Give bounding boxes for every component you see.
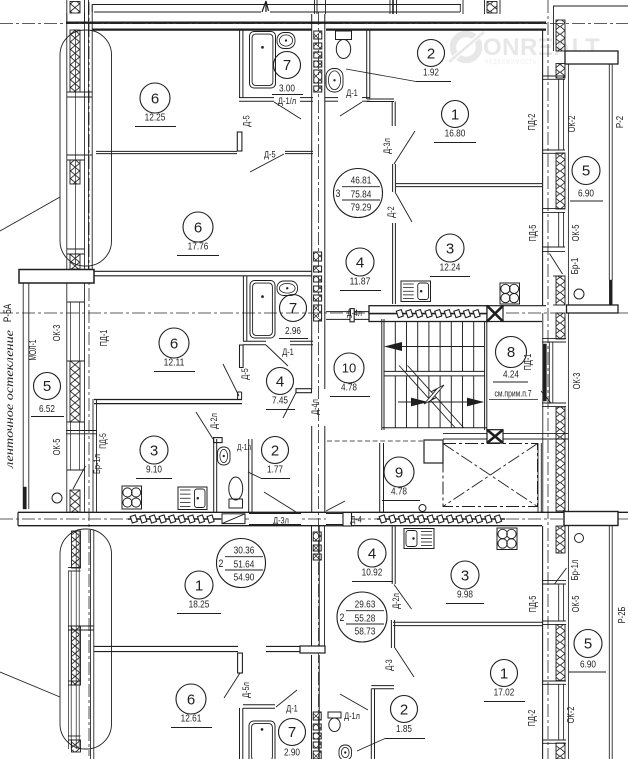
room divider y622 [393, 621, 542, 623]
sink bathroom5 sink [339, 745, 352, 759]
door D-4l lower leaf [296, 389, 312, 393]
left inner face bottom [90, 530, 92, 759]
apartment stamp 2-room a [217, 539, 266, 588]
svg-text:10.92: 10.92 [362, 567, 383, 579]
left wall block cap 2 [67, 154, 92, 156]
room divider wall y271 [94, 270, 312, 272]
svg-text:4.78: 4.78 [341, 382, 357, 394]
top parapet inner line [94, 11, 261, 13]
door D-1 bottom swing [276, 690, 297, 707]
right vent circle bottom [575, 534, 584, 543]
left wall ok5 sills [67, 421, 85, 423]
bathroom3 bottom wall [325, 97, 338, 99]
right wall ok5b sill top [542, 580, 566, 582]
central wall lines corridor2 [311, 426, 313, 512]
svg-text:29.63: 29.63 [355, 599, 376, 611]
svg-text:ОК-5: ОК-5 [571, 224, 582, 241]
svg-text:6: 6 [187, 691, 195, 708]
left wall hatch block 3 [70, 254, 80, 269]
sink bathroom2 sink [277, 281, 298, 296]
bathtub bathroom4 tub [249, 721, 275, 759]
left wall ok3 sills [67, 301, 85, 303]
left wall inner face lines [87, 5, 89, 270]
loggia edge cap top [609, 280, 612, 305]
door D-5l swing [224, 673, 240, 698]
svg-text:Д-1: Д-1 [282, 347, 294, 358]
central wall lines top [311, 14, 313, 102]
svg-text:8: 8 [507, 344, 515, 361]
svg-text:Бр-1л: Бр-1л [92, 454, 103, 474]
svg-text:4.24: 4.24 [503, 369, 519, 381]
left wall ok5 glazing [70, 422, 72, 470]
bathroom3 vent boxes [314, 31, 322, 92]
right wall ok2 sill bottom [542, 149, 565, 151]
central wall lines corridor [311, 322, 313, 389]
right wall inner line stair [542, 313, 544, 512]
svg-text:6: 6 [194, 219, 202, 236]
right wall inner lines bottom [542, 526, 544, 759]
kitchen sink kitchen 9.98 sink [404, 529, 434, 549]
svg-text:Д-4л: Д-4л [310, 399, 321, 415]
room circle 3 (9.98) [446, 561, 484, 604]
svg-text:Д-3л: Д-3л [382, 138, 393, 154]
loggia edge lines bottom [608, 526, 610, 759]
svg-text:10: 10 [342, 361, 356, 376]
bathroom1 bottom wall [239, 97, 274, 99]
svg-text:1: 1 [500, 665, 508, 682]
mid wall band pattern left [128, 518, 221, 520]
door D-5 swing [250, 154, 284, 172]
bathroom2 bottom wall [243, 340, 266, 342]
central wall vent boxes upper-bottom [313, 532, 321, 560]
svg-text:Д-5л: Д-5л [241, 682, 252, 698]
axis line 1 vertical [88, 2, 90, 756]
svg-text:9.98: 9.98 [457, 589, 473, 601]
room circle 9 (4.78) [382, 457, 420, 501]
top wall inner heavy line [92, 29, 312, 31]
svg-text:ПД-1: ПД-1 [523, 353, 534, 370]
left wall block cap b2 [68, 625, 94, 627]
svg-text:ПД-5: ПД-5 [98, 433, 109, 449]
svg-text:Д-5: Д-5 [240, 368, 251, 380]
svg-text:4: 4 [276, 373, 284, 390]
toilet room right partition [248, 439, 250, 512]
svg-text:НЕДВИЖИМОСТЬ: НЕДВИЖИМОСТЬ [485, 57, 537, 66]
bathroom4 left wall [239, 708, 241, 759]
axis line 2 vertical [318, 12, 320, 759]
room circle 2 (1.77) [261, 437, 290, 479]
mid wall band opening D-4 [326, 513, 344, 525]
top parapet right corner [459, 5, 461, 13]
section flag elevator flag [487, 430, 503, 443]
stove kitchen 9.98 stove [497, 528, 517, 550]
stair window glazing [548, 342, 550, 403]
door D-2 swing [395, 192, 412, 222]
svg-text:3: 3 [150, 442, 158, 459]
right wall ok2b sill bottom [542, 739, 566, 741]
svg-text:Д-1: Д-1 [286, 704, 298, 715]
door D-1l bottom swing [340, 694, 368, 710]
right wall hatch s2 [556, 407, 565, 511]
sink bathroom3 sink [326, 69, 343, 93]
svg-text:ПД-2: ПД-2 [527, 113, 538, 130]
svg-text:1.77: 1.77 [267, 464, 283, 476]
svg-text:46.81: 46.81 [351, 175, 372, 187]
svg-text:2: 2 [271, 442, 279, 459]
svg-text:Д-4: Д-4 [350, 515, 362, 526]
top parapet outer line [92, 4, 461, 6]
bathroom4 top wall [243, 704, 275, 706]
svg-text:Д-2л: Д-2л [209, 413, 220, 429]
right wall ok2b sill top [542, 680, 566, 682]
door D-4l lower swing [283, 393, 296, 419]
svg-text:Д-1л: Д-1л [344, 711, 360, 722]
svg-text:1: 1 [451, 106, 459, 123]
partition x393 lower [392, 223, 394, 304]
svg-text:4: 4 [368, 545, 376, 562]
svg-text:6.90: 6.90 [578, 188, 594, 200]
svg-text:Р-2Б: Р-2Б [617, 606, 628, 623]
partition y151 [96, 150, 237, 152]
partition x393 bottom [391, 526, 393, 584]
left wall hatch block 1 [70, 30, 80, 92]
left wall glazing line a [66, 13, 68, 269]
left wall hatch b3 [72, 740, 81, 752]
svg-text:Д-2: Д-2 [386, 206, 397, 218]
svg-text:Р-2: Р-2 [615, 116, 626, 129]
band right solid [503, 305, 546, 307]
leader 1.77 [248, 472, 262, 479]
svg-text:ПД-2: ПД-2 [527, 709, 538, 726]
stove kitchen 9.10 stove [122, 486, 142, 509]
leader bottom-left bay [0, 672, 60, 697]
stair break line [399, 366, 455, 428]
elevator corner block [424, 440, 443, 463]
left wall mid glazing [70, 302, 72, 361]
svg-text:ОК-3: ОК-3 [572, 372, 583, 389]
door D-5 leaf [237, 132, 242, 151]
bathroom3 right wall [366, 29, 368, 99]
room circle 10 (4.78) [330, 353, 370, 397]
central wall vent boxes bottom [313, 712, 321, 759]
svg-text:58.73: 58.73 [355, 626, 376, 638]
elevator top wall [443, 433, 487, 435]
svg-text:3: 3 [461, 567, 469, 584]
right vent circle top [574, 289, 584, 299]
right wall ok2b glazing [558, 684, 560, 740]
right wall ok5 sill bottom [542, 246, 565, 248]
svg-text:Д-1/л: Д-1/л [278, 96, 296, 107]
room circle 3 (12.24) [430, 234, 470, 277]
door D-1 top swing [340, 102, 362, 116]
svg-text:ОК-5: ОК-5 [52, 438, 63, 455]
central wall vent boxes mid [314, 252, 322, 321]
svg-text:1.85: 1.85 [396, 723, 412, 735]
left inner face mid [92, 399, 94, 512]
door D-4 leaf [343, 513, 352, 527]
door D-5 mid leaf [240, 345, 244, 368]
right wall hatch b2 [556, 625, 565, 681]
door D-2l leaf [214, 438, 223, 443]
room circle 7 (2.90) [279, 719, 306, 746]
section flag top band flag [487, 306, 503, 322]
loggia top divider wall [565, 51, 618, 64]
left ribbon glazing lines [22, 283, 24, 509]
svg-text:12.11: 12.11 [164, 357, 185, 369]
room circle 5 bottom [574, 630, 602, 658]
left wall block cap 3 [67, 248, 85, 250]
kitchen sink kitchen 9.10 sink [178, 487, 207, 510]
door D-5 mid swing [223, 364, 239, 396]
top wall outer heavy line [66, 22, 546, 24]
room circle 4 (10.92) [352, 539, 393, 582]
stair upper flight treads [394, 322, 396, 371]
svg-text:Д-2л: Д-2л [391, 593, 402, 609]
stair break zigzag [424, 385, 444, 404]
svg-text:ОК-5: ОК-5 [571, 595, 582, 612]
watermark logo ring [453, 34, 479, 60]
svg-text:6.90: 6.90 [580, 659, 596, 671]
svg-text:см.прим.п.7: см.прим.п.7 [494, 389, 531, 399]
door D-1 mid swing [266, 345, 288, 366]
room circle 2 (1.85) [385, 696, 425, 739]
room circle 2 (1.92) [416, 40, 451, 82]
room circle 6 (17.76) [177, 212, 219, 256]
door D-3 leaf [390, 620, 392, 648]
svg-text:75.84: 75.84 [351, 189, 372, 201]
stair top band pattern [369, 313, 503, 315]
axis line A horizontal [0, 23, 628, 25]
left wall block cap b1 [68, 567, 81, 569]
room circle 7 (2.96) [280, 295, 307, 322]
svg-text:2: 2 [427, 45, 435, 62]
left wall glazing line b [75, 30, 77, 266]
leader 1.85 [357, 739, 385, 752]
right wall hatch t3 [556, 276, 565, 305]
svg-text:6.52: 6.52 [39, 403, 55, 415]
right wall hatch b1 [556, 526, 565, 553]
svg-text:5: 5 [582, 163, 590, 180]
door D-2l bottom swing [394, 585, 412, 610]
svg-text:7: 7 [288, 724, 296, 741]
hall top wall [367, 98, 394, 100]
partition y399 thick [94, 399, 242, 401]
stair up arrow [391, 346, 484, 348]
left bay capsule bottom [60, 529, 112, 749]
top right corner vertical [553, 6, 555, 51]
bathroom2 left wall [242, 276, 244, 341]
elevator shaft [443, 444, 538, 507]
svg-text:ОК-2: ОК-2 [566, 706, 577, 723]
stair top band [369, 306, 487, 322]
svg-text:6: 6 [151, 90, 159, 107]
svg-text:18.25: 18.25 [189, 599, 210, 611]
left wall hatch block 2 [70, 160, 80, 184]
svg-text:ПД-5: ПД-5 [528, 224, 539, 241]
room circle 5 left [34, 373, 61, 400]
svg-text:2: 2 [340, 612, 345, 624]
right wall hatch b3 [556, 743, 565, 759]
left wall glazing bottom a [68, 571, 70, 749]
right wall ok5 sill top [542, 208, 565, 210]
door Br-1l left swing [73, 466, 86, 489]
svg-text:12.25: 12.25 [145, 112, 166, 124]
door D-1/l swing [274, 102, 301, 119]
left wall mid lines [66, 283, 68, 512]
axis line 3 vertical [547, 0, 549, 759]
bathroom1 left wall [239, 29, 241, 98]
room circle 4 (7.45) [266, 368, 295, 410]
stair lower flight treads [394, 376, 396, 428]
svg-text:ПД-1: ПД-1 [99, 329, 110, 346]
door Br-1 swing [550, 254, 563, 275]
top wall stub x390 [389, 0, 391, 14]
svg-text:30.36: 30.36 [234, 545, 255, 557]
svg-text:7.45: 7.45 [272, 395, 288, 407]
left wall glazing line c [84, 13, 86, 269]
door Br-1l right swing [555, 568, 567, 584]
door D-5l leaf [238, 653, 243, 673]
central wall lines mid [311, 102, 313, 322]
top-right wall hatch stub [487, 2, 497, 14]
svg-text:5: 5 [584, 636, 592, 653]
stove kitchen 12.24 stove [500, 283, 520, 304]
left wall glazing bottom b [75, 531, 77, 749]
svg-text:ОК-3: ОК-3 [52, 324, 63, 341]
room circle 3 (9.10) [136, 436, 172, 479]
leader 1.92 [346, 69, 416, 82]
apartment stamp 2-room b [337, 592, 387, 642]
bathtub bathroom2 tub [250, 281, 275, 339]
door D-2l swing [196, 412, 213, 439]
left wall hatch b2 [72, 626, 81, 685]
right wall inner lines top [542, 30, 544, 306]
door D-3l swing upper [264, 492, 296, 512]
stair window sill bottom [542, 402, 566, 404]
right wall inner face line [567, 64, 569, 305]
svg-text:7: 7 [283, 57, 291, 74]
svg-text:Д-5: Д-5 [242, 115, 253, 127]
svg-text:МОЛ-1: МОЛ-1 [28, 339, 39, 360]
svg-text:ПД-5: ПД-5 [528, 595, 539, 612]
mid wall band outline [18, 511, 628, 513]
svg-text:4: 4 [356, 254, 364, 271]
north flag mark [262, 1, 269, 12]
sink bathroom1 sink [277, 33, 295, 49]
svg-text:6: 6 [170, 335, 178, 352]
door D-3l leaf in band [222, 514, 245, 524]
svg-text:Д-4л: Д-4л [347, 308, 362, 318]
svg-text:7: 7 [289, 300, 297, 317]
room circle 1 (16.80) [434, 101, 476, 143]
room circle 5 top [572, 157, 600, 185]
svg-text:17.76: 17.76 [188, 241, 209, 253]
svg-text:2: 2 [400, 701, 408, 718]
svg-text:9.10: 9.10 [146, 464, 162, 476]
svg-text:Д-3л: Д-3л [273, 516, 289, 527]
mid wall band pattern right [377, 518, 505, 520]
left ribbon glazing end cap [23, 487, 26, 509]
svg-text:Бр-1: Бр-1 [570, 257, 581, 274]
right wall ok5 glazing [558, 212, 560, 247]
central wall block bottom [300, 646, 325, 653]
door Br-1l sill lines [66, 430, 97, 432]
right wall hatch t1 [556, 20, 565, 51]
elevator right wall lines [537, 443, 539, 512]
leader top-left bay [0, 197, 60, 231]
room circle 4 (11.87) [340, 248, 381, 291]
toilet partition bottom [371, 685, 394, 687]
axis line C horizontal [0, 518, 628, 520]
stair mid rails [384, 370, 485, 372]
left ribbon vent circle [52, 493, 62, 503]
toilet room left partition [213, 439, 215, 512]
svg-text:79.29: 79.29 [351, 202, 372, 214]
room circle 6 (12.61) [171, 684, 212, 728]
top wall stub x315 [314, 0, 316, 14]
svg-text:55.28: 55.28 [355, 613, 376, 625]
room divider y183 [396, 183, 542, 185]
central wall lines bottom [311, 655, 313, 759]
bathtub bathroom1 tub [250, 32, 276, 89]
room circle 1 (17.02) [484, 660, 525, 702]
svg-text:Д-5: Д-5 [264, 150, 276, 161]
door D-3l top swing [394, 131, 415, 164]
room circle 1 (18.25) [177, 571, 221, 614]
loggia edge lines top [608, 64, 610, 280]
room circle 7 (3.00) [274, 52, 301, 79]
partition x392 upper [391, 102, 393, 127]
axis line B horizontal [0, 312, 628, 314]
apartment stamp 3-room [334, 169, 383, 218]
stair down arrows [398, 401, 483, 403]
left wall hatch block 5 [70, 490, 80, 512]
top parapet left corner [91, 5, 93, 13]
left wall hatch b1 [72, 531, 81, 568]
partition x393 mid [392, 164, 394, 192]
svg-text:Д-3: Д-3 [384, 659, 395, 671]
stair window sill top [542, 338, 566, 340]
svg-text:51.64: 51.64 [234, 559, 255, 571]
right wall ok2 glazing [558, 79, 560, 150]
svg-text:5: 5 [43, 378, 51, 395]
stair bottom line [382, 427, 487, 429]
right wall ok5b glazing [558, 584, 560, 621]
svg-text:Д-1л: Д-1л [237, 442, 251, 452]
toilet toilet room wc [229, 477, 243, 508]
svg-text:3: 3 [336, 188, 341, 200]
door D-4 swing [326, 501, 345, 511]
stair left wall [381, 319, 383, 430]
mid wall band right part [564, 512, 618, 526]
svg-text:Р-5А: Р-5А [2, 303, 14, 322]
corridor9 dashed boundary [327, 440, 423, 442]
elevator door circle [419, 505, 426, 512]
door PD-1 leaf dark [543, 344, 546, 401]
door D-4l top leaf [350, 309, 354, 322]
elevator top wall right lines [503, 433, 568, 435]
svg-text:2.96: 2.96 [285, 325, 301, 337]
svg-text:Д-1: Д-1 [346, 88, 358, 99]
left wall hatch block 4 [70, 361, 80, 422]
right wall block t3 [553, 275, 566, 277]
left bay capsule top [60, 30, 112, 266]
left wall block cap 1 [67, 91, 92, 93]
left cross wall band [19, 270, 94, 284]
right wall hatch t2 [556, 153, 565, 209]
central wall lines upper-bottom [311, 526, 313, 646]
svg-text:1.92: 1.92 [423, 67, 439, 79]
